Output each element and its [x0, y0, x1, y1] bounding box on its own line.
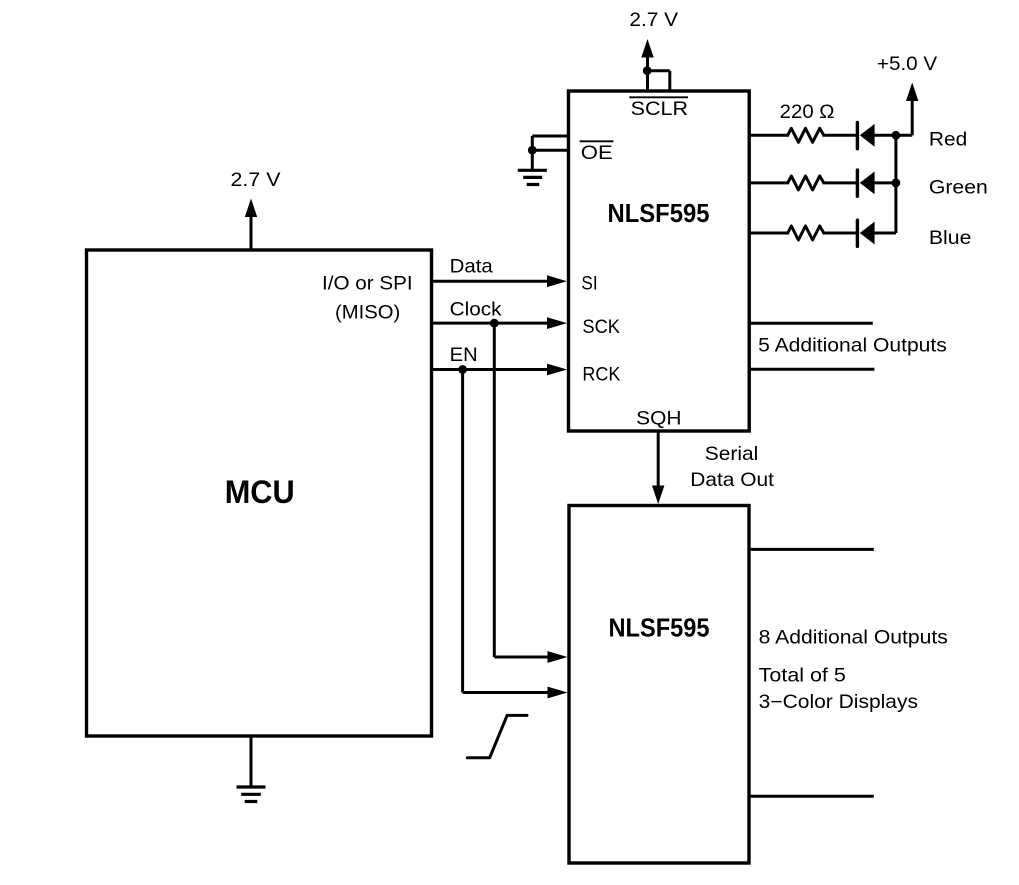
- wire SQH to U3 serial in: [652, 431, 664, 504]
- wire D2 to +5V bus: [875, 181, 896, 184]
- svg-text:Clock: Clock: [450, 299, 502, 321]
- power 2.7 V arrow (U1 VCC): [641, 39, 653, 91]
- wire R1 to D1: [823, 134, 857, 137]
- wire VCC to SCLR pin: [647, 71, 670, 91]
- LED D2 (Green): [857, 170, 874, 196]
- resistor R3: [788, 226, 824, 240]
- wire EN (MCU to RCK): [432, 364, 568, 376]
- wire U1 output to R3: [749, 232, 789, 235]
- wire +5V bus down the LED anodes: [894, 135, 897, 233]
- svg-text:RCK: RCK: [582, 363, 620, 385]
- svg-text:SCK: SCK: [582, 316, 620, 338]
- svg-text:MCU: MCU: [225, 474, 295, 510]
- svg-text:Data Out: Data Out: [690, 469, 774, 491]
- shift register U3 NLSF595 (bottom): [569, 506, 749, 864]
- svg-text:5 Additional Outputs: 5 Additional Outputs: [758, 335, 947, 357]
- LED D3 (Blue): [857, 220, 874, 246]
- svg-text:2.7 V: 2.7 V: [231, 169, 281, 191]
- svg-text:(MISO): (MISO): [335, 301, 400, 323]
- junction dot green row: [892, 179, 901, 188]
- svg-text:Total of 5: Total of 5: [759, 664, 846, 686]
- ground (MCU): [237, 736, 266, 802]
- svg-text:NLSF595: NLSF595: [608, 200, 710, 228]
- svg-text:SI: SI: [581, 273, 597, 295]
- wire OE pin to ground: [532, 136, 568, 150]
- shift register U1 NLSF595 (top): [569, 91, 750, 431]
- junction dot on Clock net: [490, 319, 499, 328]
- wire D3 to +5V bus: [875, 232, 896, 235]
- ground (U1 OE): [518, 150, 547, 184]
- wire Data (MCU to SI): [432, 275, 568, 287]
- wire U1 output to R2: [749, 181, 789, 184]
- wire U1 additional output (lower): [749, 368, 874, 371]
- svg-text:+5.0 V: +5.0 V: [877, 53, 937, 75]
- junction dot on OE ground net: [528, 146, 537, 155]
- wire EN net down to U3 RCK: [463, 370, 568, 699]
- pin label SCLR (with overline): [629, 97, 688, 120]
- svg-text:I/O or SPI: I/O or SPI: [322, 273, 413, 295]
- pin label OE (with overline): [580, 141, 614, 164]
- junction dot on U1 VCC net: [643, 66, 652, 75]
- junction dot red row: [892, 131, 901, 140]
- junction dot on EN net: [458, 365, 467, 374]
- svg-text:OE: OE: [581, 142, 613, 164]
- svg-text:Green: Green: [929, 176, 988, 198]
- LED D1 (Red): [857, 123, 874, 149]
- wire U1 additional output (upper): [749, 322, 873, 325]
- svg-text:3−Color Displays: 3−Color Displays: [759, 691, 919, 713]
- svg-text:8 Additional Outputs: 8 Additional Outputs: [759, 626, 948, 648]
- resistor R1: [788, 128, 824, 142]
- svg-text:2.7 V: 2.7 V: [629, 9, 678, 31]
- svg-text:Data: Data: [450, 256, 493, 278]
- svg-text:Serial: Serial: [705, 443, 759, 465]
- power +5.0 V arrow: [906, 83, 918, 136]
- wire U3 output (upper): [749, 548, 874, 551]
- svg-text:SQH: SQH: [636, 408, 681, 430]
- wire D1 to +5V net: [875, 134, 913, 137]
- svg-text:NLSF595: NLSF595: [609, 614, 710, 642]
- svg-text:Blue: Blue: [929, 227, 972, 249]
- svg-text:SCLR: SCLR: [631, 98, 688, 120]
- wire Clock net down to U3 SCK: [494, 323, 567, 663]
- wire U1 output to R1: [749, 134, 789, 137]
- wire R2 to D2: [823, 181, 857, 184]
- resistor R2: [788, 176, 824, 190]
- svg-text:EN: EN: [450, 344, 478, 366]
- wire Clock (MCU to SCK): [432, 317, 568, 329]
- power 2.7 V arrow (MCU VCC): [245, 199, 257, 251]
- clock edge symbol: [467, 715, 527, 757]
- svg-text:Red: Red: [929, 128, 967, 150]
- wire R3 to D3: [823, 232, 857, 235]
- wire U3 output (lower): [749, 795, 874, 798]
- MCU block U2: [87, 250, 432, 736]
- svg-text:220 Ω: 220 Ω: [780, 101, 835, 123]
